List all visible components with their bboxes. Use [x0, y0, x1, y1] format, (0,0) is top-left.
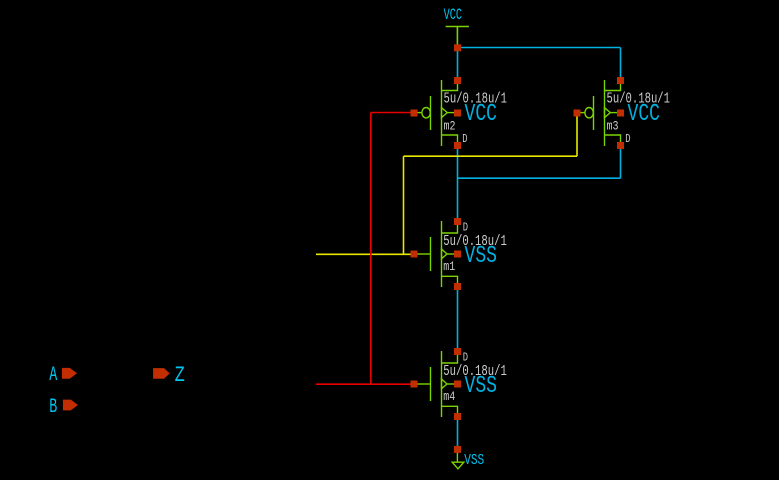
wire: red vertical riser — [370, 113, 372, 385]
transistor m4 (NMOS) — [417, 351, 507, 417]
svg-text:VSS: VSS — [464, 453, 484, 469]
svg-text:VCC: VCC — [628, 101, 661, 128]
node m1 source — [454, 283, 461, 290]
node m3 bulk — [617, 110, 624, 117]
svg-text:m3: m3 — [607, 119, 619, 134]
node m3 gate — [574, 110, 581, 117]
wire: output node horizontal to m3 drain — [458, 177, 621, 179]
node m1 gate — [411, 251, 418, 258]
svg-text:D: D — [463, 352, 468, 365]
svg-text:B: B — [49, 396, 57, 419]
junction squares (net connection points) — [411, 44, 625, 453]
node VSS — [454, 446, 461, 453]
node m2 gate — [411, 110, 418, 117]
wire: VCC top horizontal net — [458, 47, 621, 49]
svg-text:VCC: VCC — [465, 101, 498, 128]
node m4 source — [454, 413, 461, 420]
pin A — [49, 364, 77, 387]
wire: red net to m2 gate — [371, 112, 414, 114]
svg-text:D: D — [625, 133, 630, 146]
wire: m3 drain vertical — [620, 146, 622, 179]
wire: VCC to m2 source — [457, 48, 459, 81]
transistor m2 (PMOS) — [417, 80, 507, 146]
node m4 drain — [454, 348, 461, 355]
node m2 drain — [454, 142, 461, 149]
node m4 gate — [411, 381, 418, 388]
pin Z — [153, 363, 185, 388]
node m3 drain — [617, 142, 624, 149]
node VCC — [454, 44, 461, 51]
svg-text:A: A — [49, 364, 57, 387]
wire: yellow vertical to m3 gate — [576, 113, 578, 156]
node m3 source — [617, 77, 624, 84]
pin B — [49, 396, 78, 419]
svg-text:m1: m1 — [443, 259, 455, 274]
svg-text:VSS: VSS — [465, 373, 498, 400]
svg-text:m4: m4 — [443, 389, 455, 404]
svg-text:Z: Z — [175, 363, 185, 388]
wire: m1 source to m4 drain — [457, 287, 459, 352]
node m1 drain — [454, 218, 461, 225]
svg-text:VCC: VCC — [444, 6, 462, 24]
ground symbol VSS — [452, 449, 464, 468]
node m2 source — [454, 77, 461, 84]
node m1 bulk — [454, 251, 461, 258]
svg-text:D: D — [462, 133, 467, 146]
power symbol VCC — [446, 27, 469, 48]
svg-text:VSS: VSS — [465, 243, 498, 270]
transistor m3 (PMOS) — [580, 80, 670, 146]
wire: red horizontal to m4 gate — [316, 383, 414, 385]
svg-text:m2: m2 — [444, 119, 456, 134]
svg-text:D: D — [463, 222, 468, 235]
node m2 bulk — [454, 110, 461, 117]
wire: m4 source to VSS node — [457, 417, 459, 450]
wire: VCC to m3 source — [620, 48, 622, 81]
wire: yellow vertical riser — [403, 156, 405, 254]
wire: m2 drain to m1 drain — [457, 146, 459, 222]
wire: yellow horizontal to m3 gate column — [404, 155, 578, 157]
transistor m1 (NMOS) — [417, 221, 507, 287]
wire: yellow gate net to m1 gate — [316, 253, 417, 255]
node m4 bulk — [454, 381, 461, 388]
